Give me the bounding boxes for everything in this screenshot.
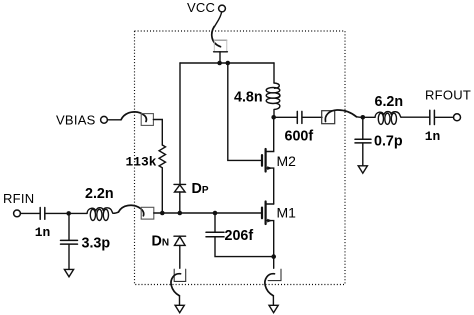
capacitor 206f — [206, 213, 274, 257]
svg-text:113k: 113k — [126, 154, 157, 169]
wire VBIAS — [108, 119, 122, 121]
pad DN ground — [174, 269, 186, 281]
RFOUT terminal — [454, 114, 461, 121]
node A — [66, 211, 71, 216]
capacitor 1n (output) — [430, 110, 435, 124]
wire VCC rail — [180, 62, 274, 64]
bond wire RFIN — [119, 205, 144, 216]
pad output — [322, 111, 335, 124]
node dot M1 source — [271, 254, 276, 259]
VBIAS terminal — [101, 116, 108, 123]
wire M1 source to pad — [273, 257, 275, 269]
wire — [45, 212, 87, 214]
wire pad to rail — [219, 52, 221, 63]
transistor M1 — [262, 202, 274, 257]
svg-text:600f: 600f — [285, 129, 314, 145]
wire gate node — [154, 212, 261, 214]
wire 6.2n to 1n — [401, 116, 429, 118]
ground DN — [175, 305, 184, 312]
svg-text:0.7p: 0.7p — [374, 134, 403, 150]
pad RFIN — [141, 207, 154, 219]
svg-text:2.2n: 2.2n — [85, 186, 114, 202]
capacitor 1n (input) — [40, 208, 45, 220]
wire rail corner to 4.8n — [273, 63, 275, 83]
RFIN terminal — [14, 210, 21, 217]
node dot 4.8n / M2 drain / 600f — [271, 115, 276, 120]
node dot rail right — [226, 61, 231, 66]
wire rail to DP branch — [179, 63, 181, 184]
transistor M2 — [262, 117, 274, 204]
svg-text:1n: 1n — [425, 129, 440, 144]
wire node to 6.2n — [363, 116, 375, 118]
dotted chip boundary box — [135, 31, 346, 285]
inductor 2.2n — [87, 208, 113, 221]
bond wire M1 ground — [265, 274, 275, 296]
svg-text:M2: M2 — [277, 153, 297, 169]
wire M2 gate from rail — [228, 63, 261, 160]
wire coil to bond — [113, 212, 119, 213]
svg-text:1n: 1n — [35, 225, 50, 240]
svg-text:VCC: VCC — [187, 0, 215, 15]
svg-text:RFOUT: RFOUT — [425, 88, 471, 103]
VCC terminal — [219, 5, 226, 12]
wire — [20, 212, 39, 214]
wire 4.8n node to 600f — [274, 116, 297, 118]
bond wire VBIAS — [121, 112, 146, 122]
capacitor 3.3p — [61, 213, 78, 269]
node dot 206f — [213, 211, 218, 216]
resistor 113k — [159, 145, 165, 213]
node dot diodes — [178, 211, 183, 216]
wire pad to resistor — [153, 120, 162, 146]
pad M1 ground — [268, 269, 281, 280]
capacitor 600f — [297, 111, 302, 123]
ground 0.7p — [358, 166, 367, 173]
wire 1n to RFOUT — [435, 116, 454, 118]
ground 3.3p — [64, 269, 73, 276]
diode DN — [174, 236, 186, 268]
svg-text:M1: M1 — [277, 204, 297, 220]
ground M1 — [269, 305, 278, 312]
svg-text:206f: 206f — [225, 228, 254, 244]
wire to ground — [272, 296, 274, 305]
node dot rail left — [217, 61, 222, 66]
svg-text:3.3p: 3.3p — [82, 236, 111, 252]
bond wire output — [325, 110, 356, 122]
wire bond to node — [357, 116, 363, 119]
wire to ground — [179, 296, 181, 305]
node dot output — [361, 115, 366, 120]
svg-text:6.2n: 6.2n — [375, 94, 404, 110]
inductor 6.2n — [375, 112, 401, 125]
capacitor 0.7p — [355, 117, 371, 165]
svg-text:VBIAS: VBIAS — [56, 112, 96, 127]
pad VBIAS — [141, 114, 153, 126]
inductor 4.8n — [266, 83, 280, 117]
pad VCC — [214, 39, 227, 41]
svg-text:4.8n: 4.8n — [234, 89, 263, 105]
node dot 113k — [160, 211, 165, 216]
diode DP — [174, 184, 186, 213]
bond wire VCC — [212, 27, 221, 47]
wire VCC terminal to bond — [214, 12, 221, 27]
wire 600f to pad — [302, 116, 322, 118]
bond wire DN ground — [171, 274, 181, 296]
svg-text:RFIN: RFIN — [3, 191, 34, 206]
